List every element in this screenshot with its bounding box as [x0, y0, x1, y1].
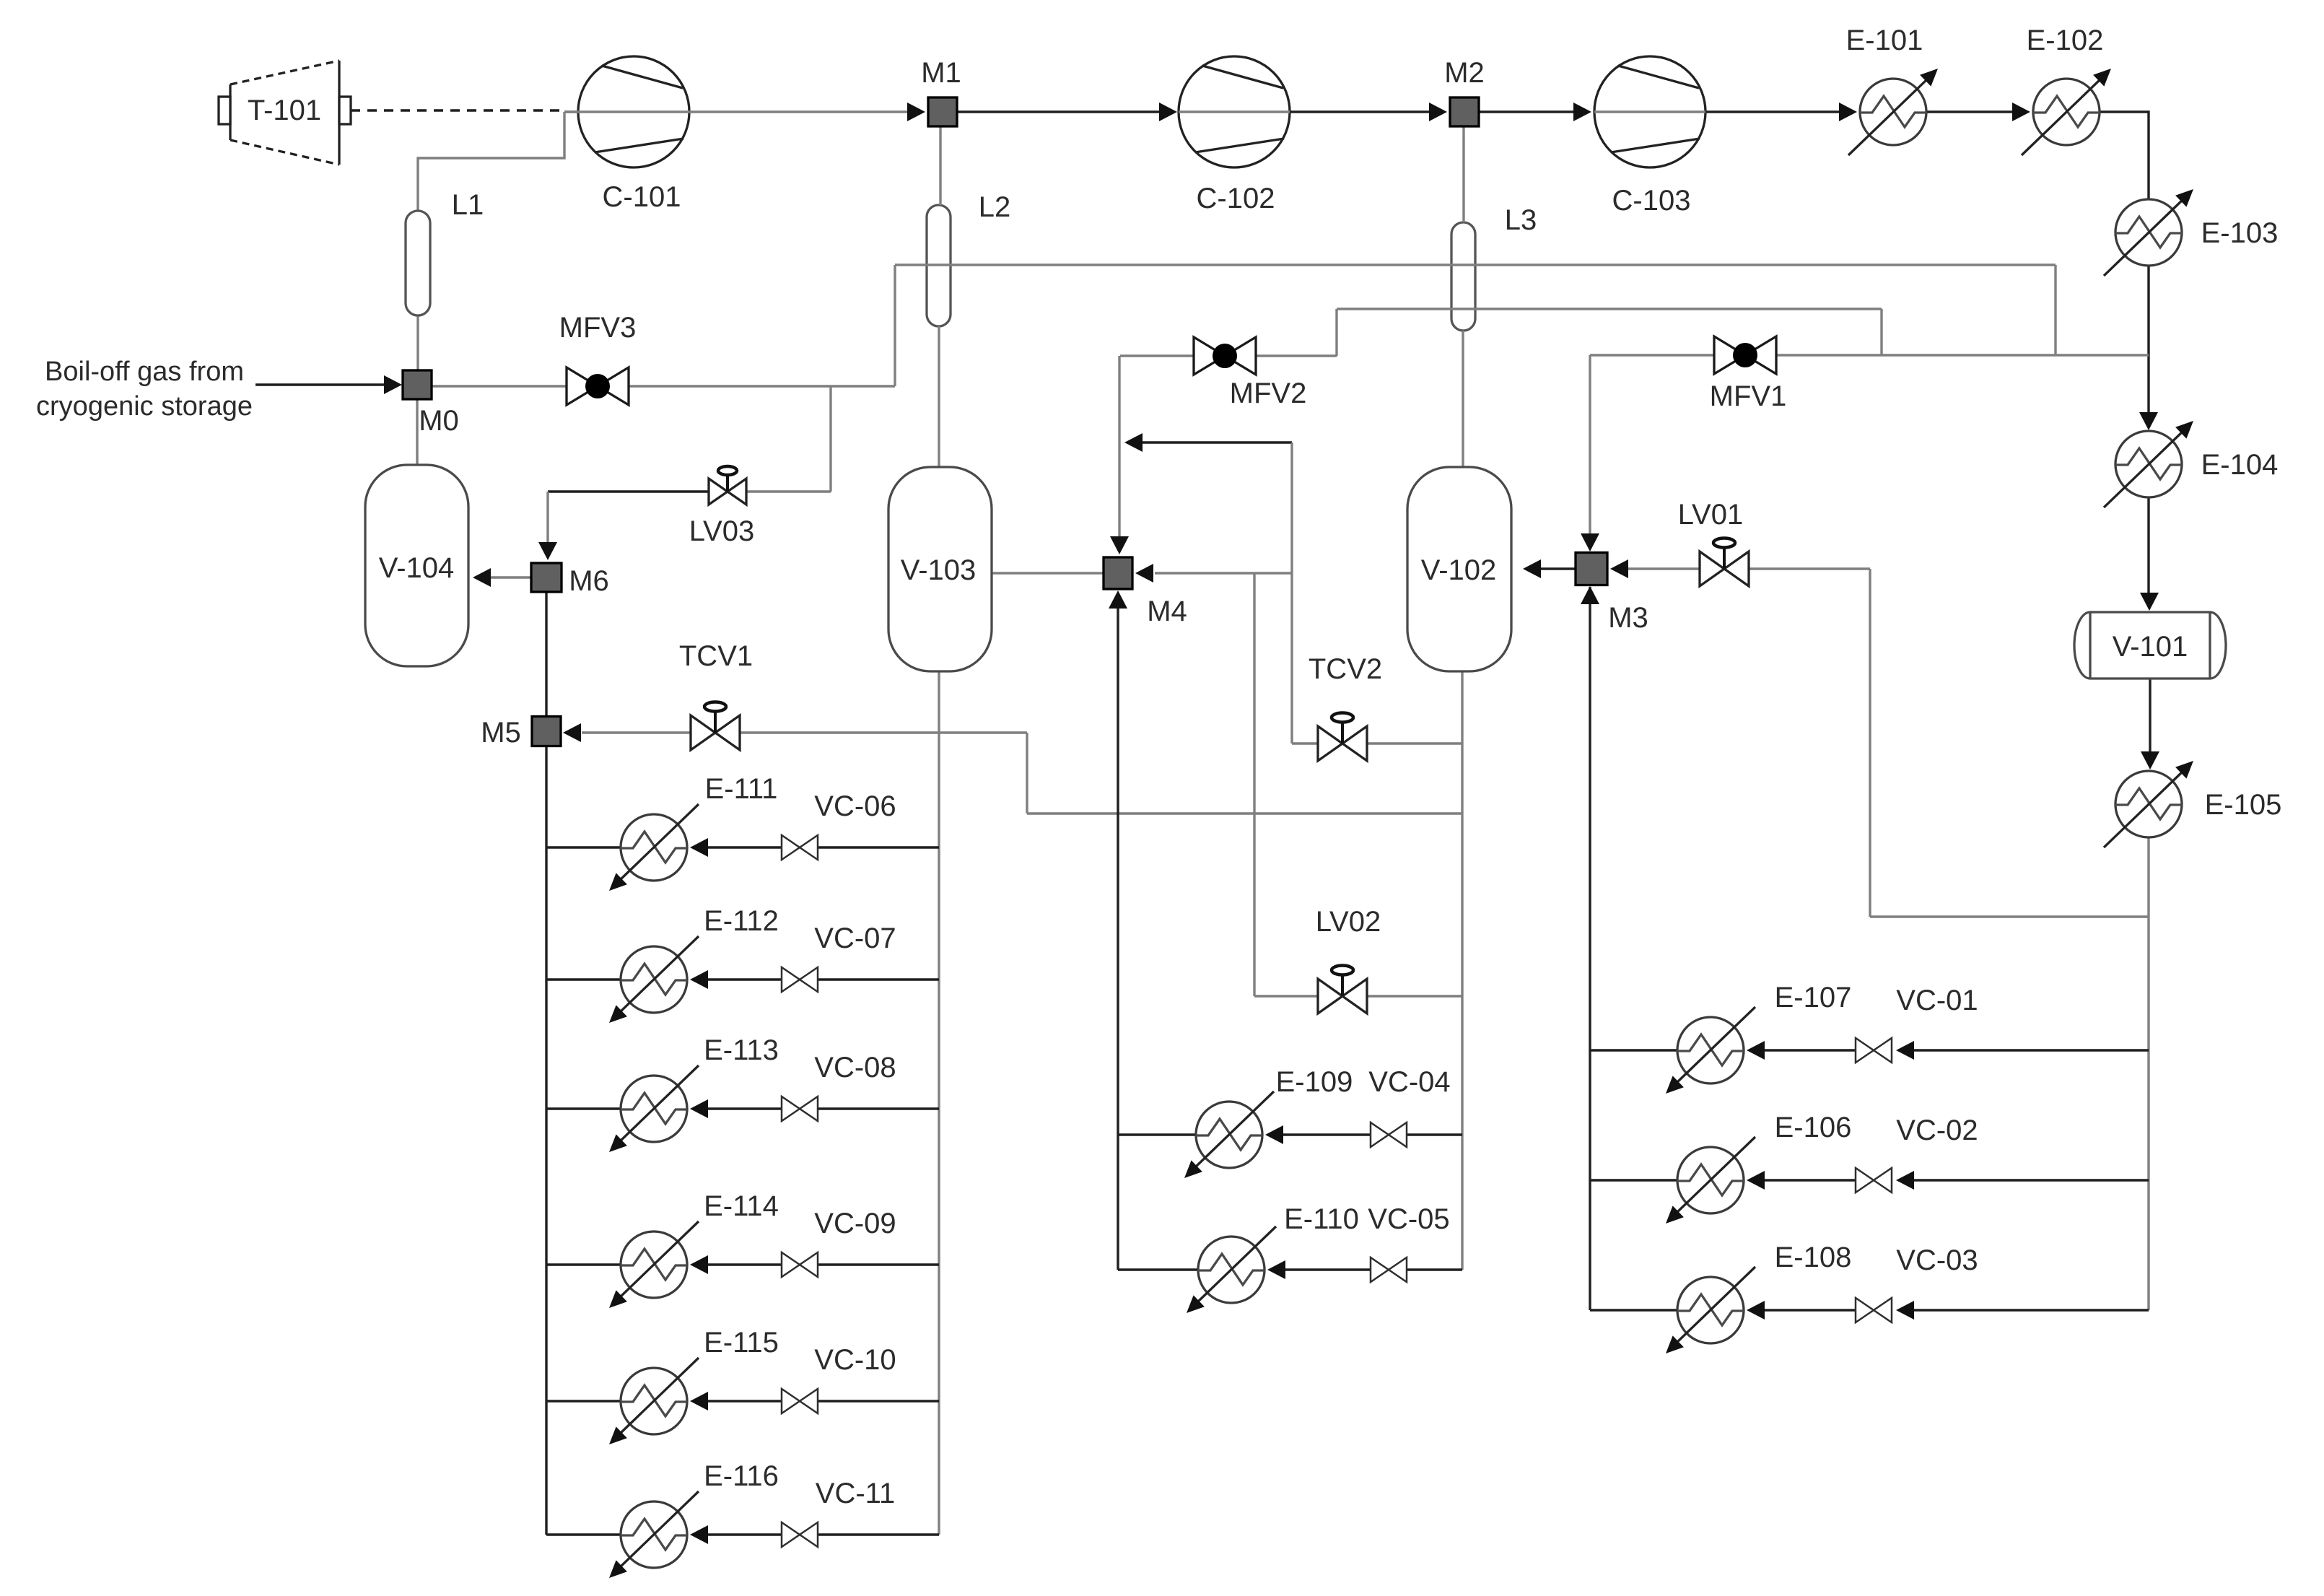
mixer M6 — [531, 563, 562, 592]
valve LV01 — [1700, 551, 1724, 586]
mixer M0 — [403, 370, 432, 399]
wire LV01 line to elbow — [1747, 567, 1870, 570]
wire MFV2 bridge riser at 2607 — [1880, 309, 1882, 355]
svg-text:V-104: V-104 — [379, 552, 455, 584]
svg-text:E-104: E-104 — [2201, 449, 2279, 481]
wire E-104 to V-101 — [2147, 497, 2149, 593]
wire V-101 to E-105 — [2149, 679, 2151, 752]
wire M1 to L2 — [939, 126, 941, 205]
heat exchanger E-104 — [2115, 431, 2182, 497]
heat exchanger E-101 — [1860, 79, 1926, 145]
mixer M3 — [1576, 553, 1607, 585]
heat exchanger E-108 — [1677, 1277, 1744, 1343]
wire E-112 row — [546, 978, 621, 980]
svg-text:Boil-off gas from: Boil-off gas from — [45, 357, 244, 387]
svg-text:LV03: LV03 — [689, 515, 754, 547]
wire E-113 row — [546, 1107, 621, 1109]
heat exchanger E-107 — [1677, 1017, 1744, 1083]
svg-text:VC-08: VC-08 — [814, 1052, 896, 1083]
svg-text:LV02: LV02 — [1316, 906, 1381, 938]
svg-text:VC-01: VC-01 — [1896, 985, 1978, 1016]
wire M6 to V-104 — [490, 576, 531, 578]
svg-text:MFV2: MFV2 — [1230, 378, 1307, 409]
svg-text:L2: L2 — [979, 191, 1011, 223]
valve VC-08 — [782, 1096, 800, 1121]
svg-text:V-102: V-102 — [1421, 554, 1497, 586]
svg-text:E-112: E-112 — [704, 905, 779, 937]
wire LV02 line — [1254, 995, 1318, 997]
wire MFV3 line M0 to riser — [432, 385, 895, 387]
wire M2 to C-103 — [1479, 110, 1574, 113]
svg-text:V-101: V-101 — [2113, 631, 2188, 663]
valve LV03 — [709, 479, 728, 505]
wire L3 to V-102 — [1462, 331, 1464, 467]
wire E-102 to E-103 — [2100, 112, 2149, 199]
heat exchanger E-105 — [2115, 771, 2182, 837]
wire riser at 2848 to MFV1 line — [2054, 265, 2056, 355]
vessel L2 surge drum — [927, 205, 951, 326]
valve VC-04 — [1371, 1122, 1389, 1147]
heat exchanger E-115 — [621, 1368, 687, 1434]
wire boil-off inlet to M0 — [255, 383, 385, 385]
wire MFV2 riser at 1852 — [1335, 309, 1337, 356]
mixer M2 — [1450, 97, 1479, 126]
svg-text:VC-07: VC-07 — [814, 923, 896, 954]
wire M6 to M5 — [545, 592, 547, 717]
svg-text:VC-05: VC-05 — [1368, 1203, 1449, 1235]
wire M4 return riser from E-109/E-110 — [1117, 608, 1119, 1270]
wire C-101 inlet elbow from L1 — [418, 112, 564, 211]
wire E-115 row — [546, 1400, 621, 1402]
mixer M1 — [928, 97, 957, 126]
svg-text:E-103: E-103 — [2201, 217, 2279, 249]
svg-text:TCV2: TCV2 — [1309, 653, 1382, 685]
valve MFV3 — [567, 367, 598, 405]
svg-text:E-114: E-114 — [704, 1190, 779, 1222]
svg-text:E-113: E-113 — [704, 1034, 779, 1066]
mixer M4 — [1104, 557, 1132, 589]
wire V-103 bottom header down to VC-11 row — [938, 671, 940, 1535]
valve MFV2 — [1194, 337, 1225, 375]
svg-text:E-106: E-106 — [1775, 1112, 1852, 1143]
wire LV03 line — [548, 490, 709, 492]
wire TCV2 branch joining M4 downcomer — [1140, 441, 1292, 443]
wire LV02 riser — [1253, 573, 1255, 996]
vessel V-101 flash drum — [2090, 612, 2210, 679]
wire MFV1 line — [1590, 354, 2149, 356]
svg-text:M2: M2 — [1444, 57, 1485, 89]
svg-text:cryogenic storage: cryogenic storage — [36, 391, 253, 422]
wire E-103 to E-104 — [2147, 266, 2149, 413]
wire M3 to V-102 — [1540, 567, 1576, 570]
valve VC-10 — [782, 1389, 800, 1413]
vessel V-104 — [365, 465, 468, 666]
svg-text:E-111: E-111 — [705, 773, 778, 805]
svg-text:E-101: E-101 — [1846, 25, 1923, 56]
wire V-103 to M4 — [992, 572, 1104, 574]
valve TCV1 — [691, 715, 715, 750]
heat exchanger E-102 — [2033, 79, 2100, 145]
heat exchanger E-109 — [1196, 1102, 1262, 1168]
svg-text:MFV3: MFV3 — [559, 312, 637, 344]
wire TCV1 feed from V-102 column — [1027, 812, 1462, 814]
wire LV01 elbow down — [1869, 569, 1871, 917]
wire MFV2 line to downcomer — [1120, 354, 1194, 357]
wire TCV1 into M5 — [582, 731, 691, 733]
wire M0 to V-104 — [416, 399, 418, 465]
svg-text:L3: L3 — [1505, 204, 1537, 236]
svg-text:VC-10: VC-10 — [814, 1344, 896, 1376]
svg-text:LV01: LV01 — [1678, 499, 1743, 531]
wire E-110 row — [1118, 1268, 1198, 1270]
wire E-103 takeoff long line — [895, 263, 2056, 266]
wire TCV1 line to elbow — [740, 731, 1027, 733]
wire L2 to V-103 — [938, 326, 940, 467]
wire M2 to L3 — [1462, 126, 1464, 222]
vessel V-102 — [1407, 467, 1511, 671]
wire M4 right line — [1155, 572, 1292, 574]
svg-text:MFV1: MFV1 — [1710, 380, 1787, 412]
wire MFV1 downcomer into M3 — [1589, 355, 1591, 534]
valve VC-07 — [782, 967, 800, 992]
wire E-108 row — [1590, 1309, 1677, 1311]
wire MFV2 downcomer into M4 — [1118, 356, 1120, 537]
wire TCV2 line — [1292, 742, 1318, 744]
wire E-116 row — [546, 1533, 621, 1535]
wire through C-103 to E-101 — [1594, 110, 1705, 113]
valve MFV1 — [1714, 336, 1745, 374]
svg-text:M4: M4 — [1147, 596, 1187, 627]
svg-text:VC-06: VC-06 — [814, 790, 896, 822]
wire M1 to C-102 — [957, 110, 1160, 113]
svg-text:M1: M1 — [921, 57, 961, 89]
svg-text:T-101: T-101 — [248, 95, 321, 126]
svg-text:E-102: E-102 — [2027, 25, 2104, 56]
valve VC-06 — [782, 835, 800, 860]
heat exchanger E-112 — [621, 946, 687, 1013]
wire E-107 row — [1590, 1049, 1677, 1051]
svg-text:E-107: E-107 — [1775, 982, 1852, 1013]
valve VC-01 — [1856, 1038, 1874, 1063]
heat exchanger E-111 — [621, 814, 687, 881]
valve VC-02 — [1856, 1168, 1874, 1192]
svg-text:VC-11: VC-11 — [816, 1478, 895, 1509]
svg-text:M0: M0 — [419, 405, 459, 437]
svg-text:VC-02: VC-02 — [1896, 1115, 1978, 1146]
wire M3 return header down to E-108 row — [1589, 587, 1591, 1310]
svg-text:V-103: V-103 — [901, 554, 977, 586]
svg-text:M3: M3 — [1608, 602, 1648, 634]
wire E-101 to E-102 — [1926, 110, 2013, 113]
svg-text:C-103: C-103 — [1612, 185, 1691, 217]
wire LV03 drop into M6 — [546, 492, 549, 543]
wire LV01 into M3 — [1628, 567, 1701, 570]
wire TCV1 elbow down — [1026, 733, 1028, 814]
wire E-114 row — [546, 1263, 621, 1265]
wire E-106 row — [1590, 1179, 1677, 1181]
compressor C-103 — [1594, 56, 1705, 167]
heat exchanger E-113 — [621, 1076, 687, 1142]
valve VC-11 — [782, 1522, 800, 1547]
wire LV01 feed from E-105 column — [1870, 915, 2149, 917]
svg-text:VC-09: VC-09 — [814, 1208, 896, 1239]
vessel V-103 — [888, 467, 992, 671]
valve VC-05 — [1371, 1257, 1389, 1282]
wire V-102 bottom header — [1461, 671, 1463, 1270]
valve VC-03 — [1856, 1298, 1874, 1322]
wire E-109 row — [1118, 1133, 1196, 1135]
valve VC-09 — [782, 1252, 800, 1277]
heat exchanger E-110 — [1198, 1237, 1264, 1303]
vessel L1 surge drum — [406, 211, 430, 315]
svg-text:M6: M6 — [569, 565, 609, 597]
heat exchanger E-103 — [2115, 199, 2182, 266]
turbine T-101 — [230, 61, 339, 165]
compressor C-102 — [1179, 56, 1290, 167]
wire riser to E-103 takeoff line — [894, 265, 896, 386]
heat exchanger E-116 — [621, 1501, 687, 1568]
svg-text:E-108: E-108 — [1775, 1242, 1852, 1273]
svg-text:E-109: E-109 — [1276, 1066, 1353, 1098]
wire L1 to M0 — [416, 315, 419, 370]
svg-text:E-110: E-110 — [1284, 1203, 1359, 1235]
compressor C-101 — [578, 56, 689, 167]
svg-text:TCV1: TCV1 — [679, 640, 753, 672]
svg-text:E-115: E-115 — [704, 1327, 779, 1359]
wire through C-101 to M1 — [564, 110, 908, 113]
wire M5 header down to E-116 row — [545, 746, 547, 1535]
wire E-111 row — [546, 846, 621, 848]
heat exchanger E-106 — [1677, 1147, 1744, 1213]
svg-text:VC-04: VC-04 — [1368, 1066, 1450, 1098]
mixer M5 — [532, 717, 561, 746]
svg-text:M5: M5 — [481, 717, 521, 749]
wire TCV2 riser — [1290, 442, 1293, 744]
svg-text:VC-03: VC-03 — [1896, 1244, 1978, 1276]
svg-text:C-102: C-102 — [1197, 183, 1275, 214]
svg-text:E-105: E-105 — [2205, 789, 2282, 821]
svg-text:L1: L1 — [452, 189, 484, 221]
wire through C-102 to M2 — [1179, 110, 1290, 113]
wire LV03 branch from MFV3 line — [829, 386, 831, 492]
wire E-105 outlet down to VC-03 row — [2147, 837, 2149, 1310]
valve LV02 — [1318, 979, 1342, 1013]
valve TCV2 — [1318, 726, 1342, 761]
heat exchanger E-114 — [621, 1231, 687, 1298]
vessel L3 surge drum — [1451, 222, 1475, 331]
svg-text:E-116: E-116 — [704, 1460, 779, 1492]
shaft T-101 to C-101 (dashed) — [351, 109, 562, 111]
svg-text:C-101: C-101 — [603, 181, 681, 213]
wire MFV2 bridge line — [1337, 308, 1882, 310]
